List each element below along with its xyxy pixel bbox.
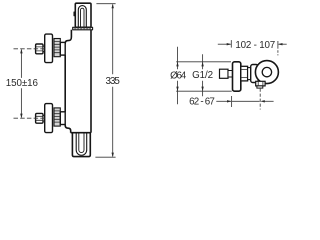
- svg-text:62 - 67: 62 - 67: [189, 97, 214, 108]
- svg-text:150±16: 150±16: [6, 78, 39, 89]
- svg-text:102 - 107: 102 - 107: [235, 40, 275, 51]
- svg-text:Ø64: Ø64: [170, 71, 187, 82]
- svg-text:335: 335: [106, 76, 121, 87]
- svg-text:G1/2: G1/2: [192, 70, 213, 81]
